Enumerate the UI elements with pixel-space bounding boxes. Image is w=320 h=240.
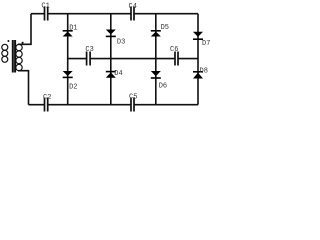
svg-text:D4: D4 <box>114 70 122 78</box>
svg-text:D3: D3 <box>117 39 125 47</box>
svg-text:D1: D1 <box>69 25 77 33</box>
svg-text:C5: C5 <box>129 94 137 102</box>
svg-text:D7: D7 <box>202 40 210 48</box>
svg-text:C1: C1 <box>41 3 49 11</box>
svg-text:D2: D2 <box>69 84 77 92</box>
svg-text:C2: C2 <box>43 94 51 102</box>
svg-text:C4: C4 <box>129 3 137 11</box>
svg-text:C6: C6 <box>170 46 178 54</box>
svg-text:D8: D8 <box>200 67 208 75</box>
svg-text:D6: D6 <box>159 82 167 90</box>
svg-text:D5: D5 <box>161 24 169 32</box>
svg-text:C3: C3 <box>85 46 93 54</box>
